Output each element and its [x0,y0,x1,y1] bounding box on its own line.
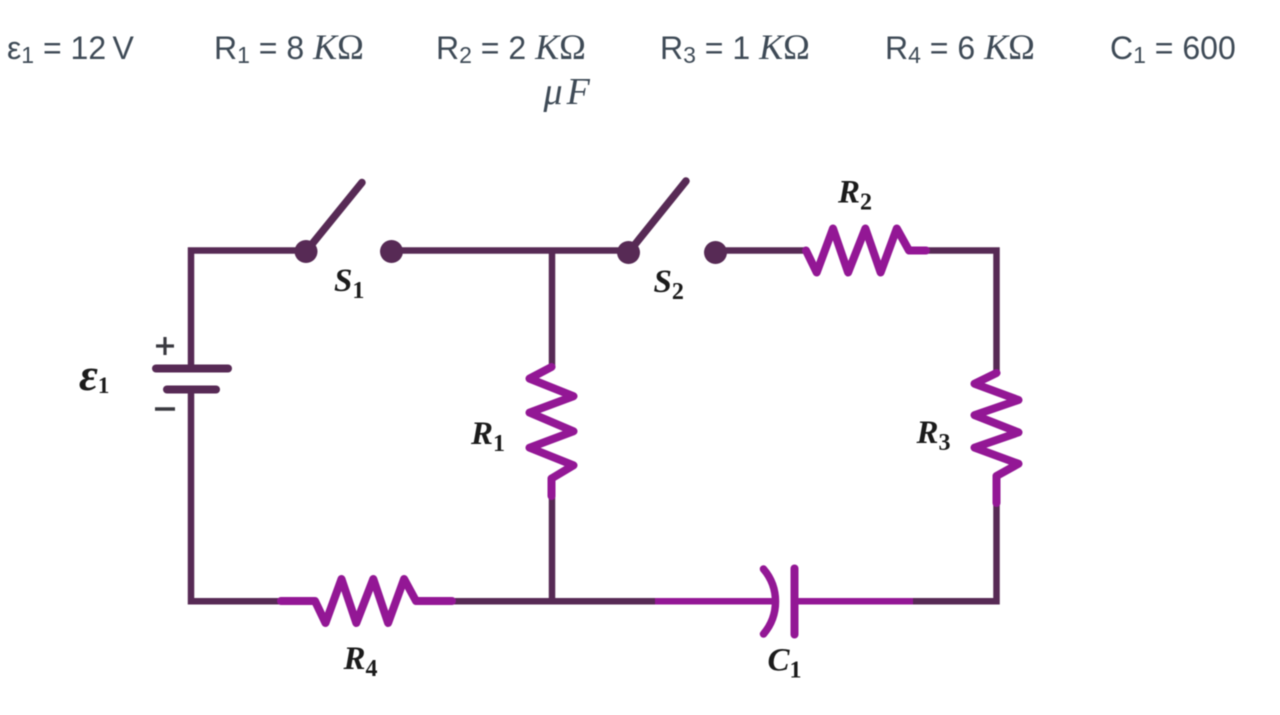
wire bottom-middle dark segment [451,598,655,605]
svg-text:R3 = 1 KΩ: R3 = 1 KΩ [660,27,810,68]
switch S1 blade [306,183,362,252]
svg-text:C1: C1 [768,643,802,684]
capacitor C1 straight plate [791,569,799,635]
resistor R4 with bright leads [281,579,452,623]
svg-text:ε1 = 12 V: ε1 = 12 V [7,30,135,68]
switch S1 left dot [295,240,318,263]
resistor R2 with bright lead [806,229,926,273]
svg-text:ε1: ε1 [79,349,109,400]
wire top: S2 right dot to R2 [716,247,809,254]
wire bottom-left dark segment and left vertical below battery [191,393,282,602]
battery E1 short negative plate [167,386,216,394]
svg-text:R3: R3 [916,415,951,456]
switch S2 left dot [617,241,640,264]
svg-text:R1: R1 [470,416,505,457]
battery minus sign [155,407,175,411]
wire top-middle: S1 to S2 through node junction [392,247,629,254]
svg-text:C1 = 600: C1 = 600 [1110,30,1236,68]
resistor R1 with bright stub [530,367,574,496]
parameter text epsilon1 = 12 V [7,27,1236,113]
svg-text:R1 = 8 KΩ: R1 = 8 KΩ [214,27,364,68]
svg-text:R4 = 6 KΩ: R4 = 6 KΩ [885,27,1035,68]
wire right-bottom: below R3 to bottom-right corner [913,500,997,601]
svg-text:S2: S2 [654,264,684,305]
resistor R3 with bright stub [975,373,1019,503]
svg-text:R4: R4 [343,641,378,682]
switch S1 right dot [380,240,403,263]
wire top-right corner down to R3 [907,251,997,372]
battery E1 long positive plate [156,365,228,373]
wire bottom bright segment left of capacitor C1 [655,598,772,605]
battery plus sign [156,337,174,355]
wire top-left: left corner to switch S1 [191,251,306,370]
capacitor C1 curved plate [764,569,776,634]
svg-text:μF: μF [543,71,594,113]
svg-text:R2 = 2 KΩ: R2 = 2 KΩ [436,27,586,68]
svg-text:R2: R2 [837,175,872,216]
switch S2 right dot [704,241,727,264]
svg-text:S1: S1 [334,263,364,304]
wire branch R1 lower [549,494,556,601]
switch S2 blade [629,181,687,253]
wire bottom bright segment right of capacitor C1 [795,598,914,605]
wire branch R1 upper [549,248,556,369]
